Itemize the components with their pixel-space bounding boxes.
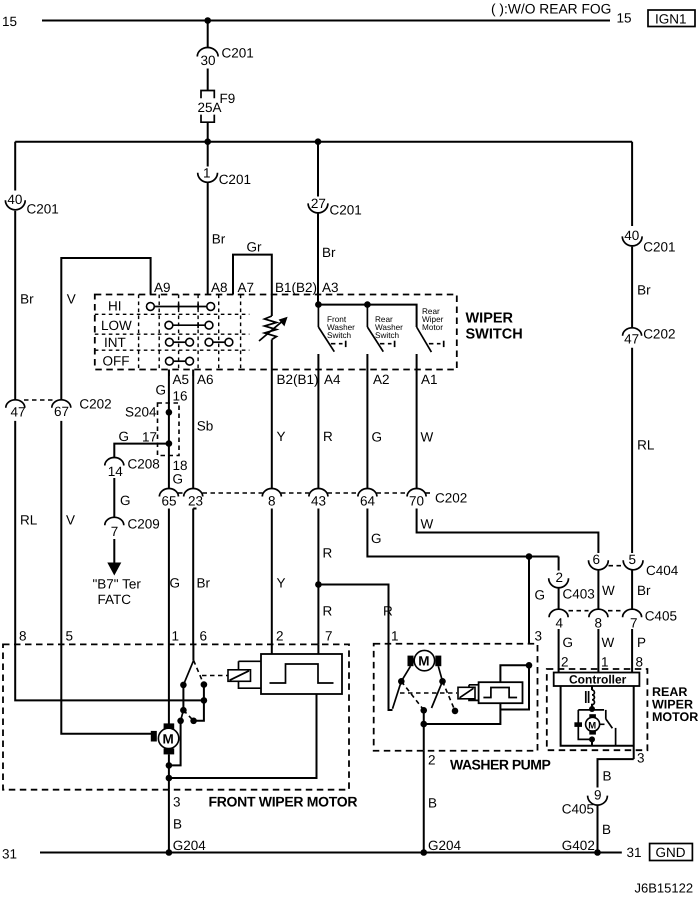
linkage dashed washer to relay [400, 692, 457, 694]
svg-text:25A: 25A [198, 100, 222, 115]
switch front washer [318, 305, 355, 352]
node washer pin3 junction [526, 662, 533, 669]
fuse F9 25A [198, 91, 236, 123]
connector C202 pin 64 [358, 489, 377, 509]
wire washer right brush to contact [438, 666, 442, 681]
washer pump dashed box [374, 644, 538, 751]
rear wiper motor dashed box [547, 669, 648, 750]
wire fuse to bus rail [207, 122, 209, 142]
node rear coil junction [589, 706, 595, 712]
wire washer junction to timer top [500, 665, 529, 682]
svg-text:65: 65 [162, 494, 177, 509]
relay solenoid washer pump [458, 685, 479, 701]
wire C208 to C209, label G [114, 478, 130, 518]
timer box front wiper [261, 654, 342, 694]
svg-text:M: M [418, 654, 429, 669]
wire ground rail [40, 852, 622, 854]
wire C202-43 down, label R [318, 509, 332, 585]
wire bus left branch down to C201-40 [14, 142, 16, 191]
svg-text:1: 1 [203, 165, 211, 180]
svg-text:Br: Br [197, 576, 211, 591]
svg-text:15: 15 [2, 14, 17, 29]
node washer contact right [439, 678, 446, 685]
svg-text:( ):W/O REAR FOG: ( ):W/O REAR FOG [491, 2, 611, 17]
pin A1 label [421, 372, 438, 387]
pin A8 label [211, 280, 228, 295]
wire pin1 internal to motor top [168, 644, 170, 724]
connector C209 pin 7 [105, 517, 160, 540]
node junction bus at A3 [315, 138, 322, 145]
svg-text:IGN1: IGN1 [655, 11, 687, 26]
wire pin3 front wiper to ground rail, labels 3 B G204 [169, 790, 206, 853]
wire A4 pin stub [317, 354, 319, 370]
svg-text:W: W [602, 635, 615, 650]
svg-text:R: R [383, 604, 393, 619]
wire C202-47R down to C404-5, label RL [632, 348, 655, 553]
label WIPER SWITCH [466, 311, 523, 343]
connector C202 pin 23 [184, 489, 203, 509]
svg-text:SWITCH: SWITCH [466, 327, 523, 343]
note W/O REAR FOG [491, 2, 611, 17]
wire Gr jog A7 to B1(B2) column [233, 240, 272, 295]
wiper switch row labels [101, 299, 132, 369]
svg-text:F9: F9 [220, 91, 236, 106]
svg-text:17: 17 [142, 430, 157, 445]
svg-text:A2: A2 [373, 372, 390, 387]
pin 1 label front wiper [172, 629, 180, 644]
switch rear wiper motor feed [417, 307, 444, 352]
node ground junction G204 front [166, 849, 173, 856]
svg-text:16: 16 [173, 389, 188, 404]
svg-text:C208: C208 [128, 457, 160, 472]
node IGN1 box [648, 10, 695, 27]
motor M front wiper [151, 723, 179, 754]
svg-text:C404: C404 [646, 563, 679, 578]
wire A1 to C202-70, label W [417, 370, 434, 490]
svg-text:INT: INT [104, 335, 126, 350]
linkage dashed park to relay [202, 675, 228, 677]
wire A1 pin stub [416, 354, 418, 370]
wire park contact A down [182, 685, 184, 710]
svg-text:Br: Br [322, 245, 336, 260]
wire rear pin3 to C405-9, labels 3 B [598, 751, 645, 788]
switch speed blade dashed [183, 710, 193, 721]
connector C202 pair 47/67 [6, 397, 112, 420]
svg-text:G: G [120, 493, 131, 508]
wire rear bottom bus [561, 686, 634, 746]
node rear motor bottom junction [589, 736, 595, 742]
wire C202-70 to C404-6, label W [417, 509, 599, 554]
wire top IGN1 rail [42, 20, 610, 22]
wire V: A9 up-over-left and down to front wiper pin 5 [61, 258, 150, 400]
svg-text:47: 47 [624, 332, 639, 347]
node speed contact B [190, 718, 197, 725]
wire C405-8 to controller pin 1, label W [598, 629, 614, 673]
wire C201-27 to A3, label Br [318, 213, 336, 294]
svg-text:A7: A7 [238, 280, 255, 295]
svg-text:7: 7 [630, 616, 638, 631]
connector C404 pin 5 [623, 552, 679, 578]
svg-text:Motor: Motor [422, 323, 443, 332]
wire bus rail (second horizontal) [15, 141, 632, 143]
connector C201 pin 27 [308, 196, 362, 218]
wire pin7 to timer box [317, 644, 319, 654]
svg-text:2: 2 [556, 570, 564, 585]
svg-text:Y: Y [277, 429, 286, 444]
svg-text:C201: C201 [330, 203, 362, 218]
svg-text:C202: C202 [435, 491, 467, 506]
wire C202-64 to C403, label G [367, 509, 558, 557]
connector C202 row dashed link [178, 492, 432, 494]
svg-text:S204: S204 [125, 405, 157, 420]
svg-text:A3: A3 [322, 280, 339, 295]
wire C405-4 to controller pin 2, label G [559, 629, 573, 673]
pin A2 label [373, 372, 390, 387]
pin 2 label front wiper [276, 629, 284, 644]
svg-text:Switch: Switch [375, 331, 400, 340]
svg-text:RL: RL [20, 513, 38, 528]
svg-text:27: 27 [311, 196, 326, 211]
pin A5 label and tick [169, 370, 189, 388]
wire C403-2 to C405-4 [558, 588, 560, 609]
wire C201-40L down to C202-47, label Br [15, 211, 34, 400]
node washer contact left [398, 678, 405, 685]
switch park blade solid [183, 660, 193, 685]
svg-text:4: 4 [556, 616, 564, 631]
svg-text:3: 3 [173, 795, 181, 810]
wire A4 to C202-43, label R [318, 370, 333, 490]
wire S204 to C202-65, labels 18 G [169, 456, 188, 490]
wire B2(B1) to C202-8, label Y [272, 370, 286, 490]
svg-text:B1(B2): B1(B2) [275, 280, 317, 295]
svg-text:J6B15122: J6B15122 [635, 881, 694, 896]
svg-text:5: 5 [629, 552, 637, 567]
wire park contact B to rail junction [203, 685, 205, 701]
controller box [554, 673, 640, 687]
svg-text:43: 43 [311, 494, 326, 509]
switch rear motor park [600, 710, 616, 746]
connector C405 dashed link [569, 610, 623, 612]
wire speed contact B loop to park rail [194, 700, 204, 720]
wire washer pin1 down inside [389, 644, 393, 710]
connector C201 pin 40 right [622, 228, 675, 254]
svg-text:C405: C405 [562, 802, 594, 817]
svg-text:6: 6 [593, 552, 601, 567]
wire A3 junction node [315, 295, 322, 308]
pin 1 label washer pump [391, 629, 399, 644]
svg-text:G402: G402 [562, 838, 595, 853]
svg-text:C403: C403 [563, 587, 595, 602]
svg-text:GND: GND [656, 845, 686, 860]
node ground junction G204 washer [420, 849, 427, 856]
svg-text:A6: A6 [197, 372, 214, 387]
wire A2 pin stub [366, 354, 368, 370]
node park rail junction [201, 697, 208, 704]
node ground junction G402 [594, 849, 601, 856]
wiper switch grid dashed verticals [139, 295, 241, 370]
wire washer left brush to contact [401, 666, 410, 681]
wire C201-30 to fuse F9 [207, 69, 209, 91]
svg-text:15: 15 [617, 11, 632, 26]
svg-text:B: B [428, 796, 437, 811]
pin 6 label front wiper [200, 629, 208, 644]
svg-text:40: 40 [624, 228, 639, 243]
wire A6 to C202-23, label Sb [193, 370, 213, 490]
splice S204 dashed box [125, 403, 179, 456]
svg-text:P: P [637, 635, 646, 650]
svg-text:7: 7 [111, 524, 119, 539]
node washer common junction [420, 707, 427, 714]
svg-text:8: 8 [268, 494, 276, 509]
relay solenoid front wiper [228, 661, 261, 688]
coil rear wiper [586, 686, 595, 709]
svg-text:8: 8 [19, 629, 27, 644]
connector C202 pin 70 [407, 489, 467, 509]
pin B2(B1) label [277, 372, 319, 387]
svg-text:A5: A5 [173, 372, 190, 387]
wire washer switch feed bus [318, 305, 416, 327]
svg-text:Br: Br [20, 292, 34, 307]
svg-text:RL: RL [637, 438, 655, 453]
svg-text:5: 5 [66, 629, 74, 644]
wire C405-7 to controller pin 8, label P [632, 629, 646, 673]
svg-text:C201: C201 [643, 240, 675, 255]
svg-text:G204: G204 [173, 838, 207, 853]
node speed select junction [180, 707, 187, 714]
switch washer blade right dashed [443, 681, 456, 710]
switch washer blade left dashed [401, 681, 423, 710]
label REAR WIPER MOTOR [652, 685, 698, 724]
node S204 lower junction [166, 440, 173, 447]
svg-text:Br: Br [637, 283, 651, 298]
svg-text:M: M [588, 720, 596, 731]
front wiper motor dashed box [3, 644, 349, 789]
pin A6 label and tick [193, 370, 213, 388]
svg-text:HI: HI [108, 299, 122, 314]
node 15 label right [617, 11, 632, 26]
svg-text:R: R [323, 546, 333, 561]
switch row LOW contacts [165, 321, 213, 329]
svg-text:FRONT WIPER MOTOR: FRONT WIPER MOTOR [209, 794, 358, 810]
node 31 label right [627, 845, 642, 860]
wire timer return to motor bottom [169, 694, 317, 778]
wire washer junction to timer bottom tee [500, 665, 529, 709]
svg-text:Gr: Gr [247, 240, 263, 255]
wire S204 branch to C208, labels G 17 [114, 429, 169, 458]
wire C202-65 to front wiper pin 1, label G [169, 509, 180, 645]
wire C202-8 to front wiper pin 2, label Y [272, 509, 286, 645]
node washer common lower junction [420, 721, 427, 728]
connector C201 pin 1 [198, 165, 251, 187]
motor M rear wiper [586, 714, 600, 734]
switch row INT contacts [166, 338, 233, 346]
svg-text:9: 9 [594, 788, 602, 803]
pin A4 label [324, 372, 341, 387]
wire C405-9 to ground rail, labels B G402 [562, 805, 611, 853]
svg-text:8: 8 [595, 616, 603, 631]
switch washer blade left solid [393, 681, 402, 709]
label B7 Ter FATC [93, 577, 142, 608]
wire pin5 internal to motor left brush [61, 644, 151, 733]
svg-text:B: B [602, 822, 611, 837]
wire washer common down [423, 710, 425, 751]
svg-text:70: 70 [409, 494, 424, 509]
pin 5 label front wiper [66, 629, 74, 644]
label J6B15122 [635, 881, 694, 896]
svg-text:Controller: Controller [569, 673, 627, 687]
wiper switch dashed box [95, 295, 457, 370]
svg-text:G: G [563, 635, 574, 650]
wire washer pin2 to ground, labels 2 B G204 [424, 751, 462, 853]
svg-text:W: W [421, 517, 434, 532]
svg-text:G: G [372, 430, 383, 445]
svg-text:B: B [603, 769, 612, 784]
svg-text:3: 3 [535, 629, 543, 644]
arrow to FATC [107, 539, 121, 576]
wire C202-47 down to front wiper pin 8, label RL [15, 421, 38, 645]
svg-text:WASHER PUMP: WASHER PUMP [450, 757, 550, 773]
svg-text:Br: Br [212, 232, 226, 247]
wire C404-5 to C405-7, label Br [632, 570, 651, 610]
switch speed blade solid [181, 710, 184, 721]
svg-text:R: R [323, 429, 333, 444]
wire R junction to front wiper pin 7, label R [318, 585, 332, 645]
switch washer blade right solid [432, 681, 443, 708]
node speed contact A [177, 718, 184, 725]
pin A9 label [154, 280, 171, 295]
pin B1(B2) label [275, 280, 317, 295]
pin A3 label [322, 280, 339, 295]
wire R branch to washer pump pin 1 [318, 585, 393, 644]
svg-text:C202: C202 [643, 327, 675, 342]
wire C404-6 to C405-8, label W [598, 570, 615, 610]
wire bus right branch down to C201-40 right [631, 142, 633, 226]
svg-text:Y: Y [277, 576, 286, 591]
svg-text:14: 14 [108, 464, 124, 479]
wiper switch grid dashed rows [95, 314, 250, 350]
connector C208 pin 14 [105, 457, 160, 479]
svg-text:C201: C201 [219, 172, 251, 187]
wire G junction down to washer pump pin 3, label G [529, 557, 545, 644]
wire A2 to C202-64, label G [367, 370, 382, 490]
svg-text:A8: A8 [211, 280, 228, 295]
wire pin6 internal to park switch pivot [192, 644, 194, 660]
node park contact B [201, 681, 208, 688]
connector C202 pin 65 [159, 489, 178, 509]
svg-text:OFF: OFF [103, 354, 130, 369]
svg-text:1: 1 [601, 655, 609, 670]
node motor bottom junction 2 [166, 775, 173, 782]
svg-text:M: M [163, 732, 174, 747]
svg-text:40: 40 [7, 192, 22, 207]
connector C202 pin 43 [309, 489, 328, 509]
svg-text:MOTOR: MOTOR [652, 710, 698, 724]
svg-text:"B7" Ter: "B7" Ter [93, 577, 142, 592]
wire A5 to S204, label G 16 [156, 370, 188, 413]
resistor variable intermittent (zigzag with arrow) [259, 295, 288, 370]
connector C405 pin 9 [562, 788, 608, 817]
switch row OFF contacts [166, 357, 194, 365]
svg-text:23: 23 [188, 494, 203, 509]
capacitor rear wiper [574, 722, 582, 727]
svg-text:G: G [119, 429, 130, 444]
wire C202-67 down to pin 5, label V [61, 421, 75, 645]
wire motor bottom down [168, 754, 170, 789]
svg-text:A9: A9 [154, 280, 171, 295]
svg-text:C201: C201 [27, 202, 59, 217]
wire pin8 internal to park contact rail [15, 644, 204, 700]
svg-text:Switch: Switch [327, 331, 352, 340]
svg-text:2: 2 [428, 753, 436, 768]
svg-text:3: 3 [637, 751, 645, 766]
svg-text:G: G [170, 576, 181, 591]
wire timer bottom to washer common [424, 703, 501, 724]
svg-text:LOW: LOW [101, 318, 132, 333]
node junction bus at center [204, 138, 211, 145]
svg-text:A1: A1 [421, 372, 438, 387]
wire from rail to connector C201-30 [207, 21, 209, 48]
svg-text:67: 67 [54, 404, 69, 419]
switch park blade dashed alternate [194, 660, 204, 684]
connector C405 pin 8 [589, 609, 608, 630]
wire pin2 to timer box [271, 644, 273, 654]
connector C202 pin 47 right [623, 327, 676, 347]
svg-text:A4: A4 [324, 372, 341, 387]
svg-text:31: 31 [2, 847, 17, 862]
svg-text:6: 6 [200, 629, 208, 644]
svg-text:FATC: FATC [98, 592, 132, 607]
node washer aux contact [452, 708, 459, 715]
svg-text:C405: C405 [645, 609, 677, 624]
connector C404 dashed link [609, 565, 625, 567]
node park contact A [180, 682, 187, 689]
svg-text:1: 1 [391, 629, 399, 644]
svg-text:G: G [156, 383, 167, 398]
svg-text:30: 30 [201, 53, 216, 68]
svg-text:Br: Br [637, 583, 651, 598]
svg-text:W: W [602, 583, 615, 598]
node G branch junction to washer pump [526, 553, 533, 560]
svg-text:C209: C209 [128, 517, 160, 532]
connector C405 pin 7 [623, 609, 677, 631]
node S204 upper junction [166, 409, 173, 416]
node motor bottom junction 1 [166, 762, 173, 769]
svg-text:8: 8 [636, 655, 644, 670]
pin A7 label [238, 280, 255, 295]
svg-text:Sb: Sb [197, 419, 214, 434]
node R branch junction [315, 581, 322, 588]
svg-text:64: 64 [360, 494, 376, 509]
connector C405 pin 4 [549, 609, 568, 630]
svg-text:B: B [173, 817, 182, 832]
wire bus to C201-1 [207, 142, 209, 167]
connector C403 pin 2 [549, 557, 595, 602]
label WASHER PUMP [450, 757, 550, 773]
wire C201-40R to C202-47R, label Br [632, 247, 651, 328]
node rear washer junction [364, 301, 371, 308]
wire speed contact A to motor bottom node [169, 721, 181, 766]
node junction on IGN1 rail [204, 17, 211, 24]
svg-text:C202: C202 [79, 397, 111, 412]
svg-text:R: R [323, 604, 333, 619]
svg-text:1: 1 [172, 629, 180, 644]
connector C201 pin 40 left [5, 192, 58, 216]
wire rear branch frame [578, 710, 604, 740]
pin 8 label front wiper [19, 629, 27, 644]
svg-text:C201: C201 [222, 46, 254, 61]
svg-text:G: G [535, 588, 546, 603]
connector C404 pin 6 [589, 552, 609, 570]
